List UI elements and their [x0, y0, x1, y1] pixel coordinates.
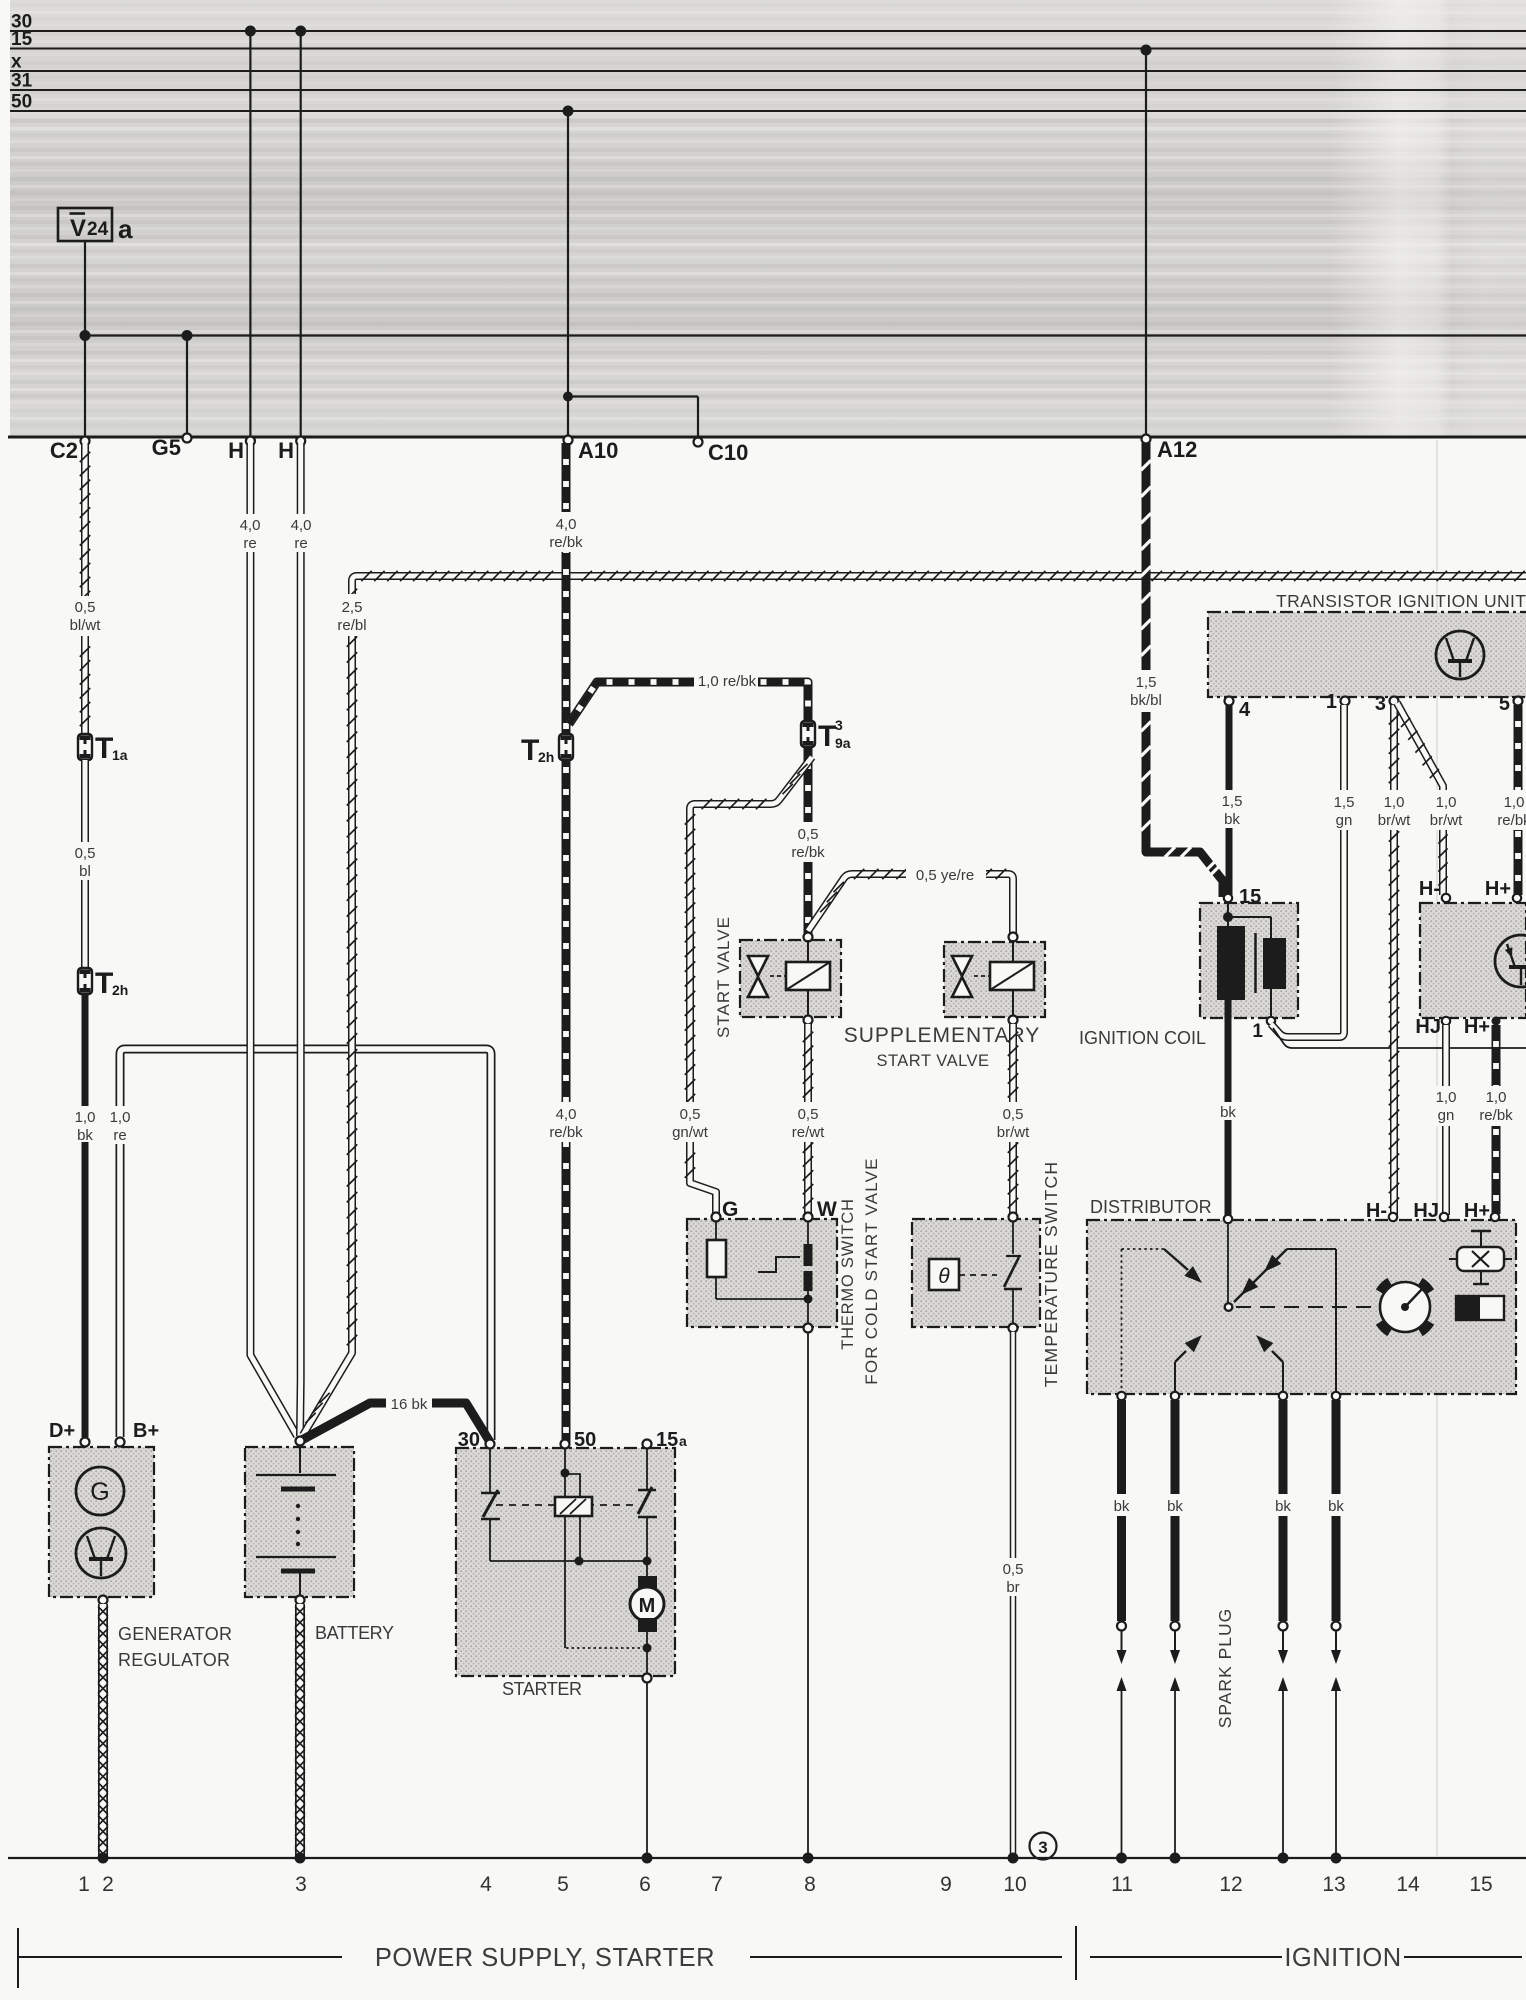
- starter solenoid actuation dashed line: [496, 1504, 638, 1506]
- thermo switch bottom terminal: [804, 1324, 813, 1333]
- svg-text:1,5: 1,5: [1222, 793, 1243, 810]
- spark plug lead 4 (bk): [1328, 1392, 1344, 1621]
- svg-text:gn: gn: [1336, 812, 1353, 829]
- wire 0.5 re/bk (T9a to start valve): [791, 747, 825, 937]
- svg-text:13: 13: [1322, 1873, 1345, 1896]
- generator symbol G: [76, 1467, 124, 1515]
- terminal A12: [1142, 435, 1198, 463]
- wire H (right) from bus 30: [295, 26, 306, 440]
- svg-text:3: 3: [1375, 693, 1386, 715]
- svg-text:gn: gn: [1438, 1107, 1455, 1124]
- interference suppressor: [1449, 1231, 1512, 1284]
- label TEMPERATURE SWITCH: [1041, 1161, 1061, 1387]
- svg-text:re/bk: re/bk: [549, 1124, 583, 1141]
- transistor ignition unit box: [1208, 612, 1526, 697]
- label DISTRIBUTOR: [1090, 1197, 1212, 1217]
- svg-text:re/bk: re/bk: [791, 844, 825, 861]
- wire 2.5 re/bl (bus to battery +) hatched: [303, 571, 1526, 1435]
- svg-text:bl: bl: [79, 863, 91, 880]
- svg-text:TEMPERATURE SWITCH: TEMPERATURE SWITCH: [1041, 1161, 1061, 1387]
- label SUPPLEMENTARY START VALVE: [844, 1024, 1041, 1070]
- wire bk (coil to distributor): [1220, 1000, 1236, 1218]
- terminal A10: [564, 436, 619, 464]
- svg-text:4,0: 4,0: [556, 1106, 577, 1123]
- wire 0.5 bl (T1a to T2h): [72, 760, 98, 968]
- battery plates symbol: [256, 1447, 336, 1597]
- svg-text:bk: bk: [1328, 1498, 1344, 1515]
- wire starter to ground line: [646, 1682, 648, 1858]
- svg-text:0,5: 0,5: [798, 1106, 819, 1123]
- start valve box: [740, 940, 841, 1017]
- temperature switch box: [912, 1219, 1040, 1327]
- ground rail junction at x=647: [642, 1853, 653, 1864]
- battery + terminal: [296, 1437, 305, 1446]
- wire 16 bk (battery + to starter 30): [300, 1394, 490, 1442]
- svg-text:x: x: [11, 52, 22, 73]
- starter contact 15a: [638, 1448, 657, 1561]
- terminal C2: [50, 437, 90, 464]
- svg-text:SPARK PLUG: SPARK PLUG: [1215, 1608, 1235, 1729]
- bus line 15: [10, 29, 1526, 50]
- ground rail junction at x=300: [295, 1853, 306, 1864]
- svg-text:C10: C10: [708, 440, 748, 465]
- start valve injector symbol: [748, 956, 786, 997]
- svg-text:14: 14: [1396, 1873, 1420, 1896]
- starter box: [456, 1448, 675, 1676]
- ground rail junction at x=1013: [1008, 1853, 1019, 1864]
- svg-text:1,0: 1,0: [1436, 1089, 1457, 1106]
- spark plug gap 3: [1278, 1622, 1288, 1859]
- svg-text:br/wt: br/wt: [997, 1124, 1030, 1141]
- svg-text:re: re: [294, 535, 307, 552]
- page fold line (faint): [1436, 440, 1438, 1856]
- wire H (left) from bus 30: [245, 26, 256, 440]
- distributor rotor: [1379, 1281, 1430, 1332]
- bus line x: [10, 52, 1526, 73]
- spark plug gap 2: [1170, 1622, 1180, 1859]
- wire 1.5 bk/bl (A12 to ignition coil 15): [1128, 443, 1223, 897]
- start valve bottom terminal: [804, 1016, 813, 1025]
- relay V24 box: [58, 208, 133, 244]
- wire 1.0 bk (T2h to D+): [75, 994, 96, 1437]
- svg-text:1: 1: [1326, 691, 1337, 713]
- svg-text:30: 30: [458, 1429, 480, 1451]
- svg-text:3: 3: [295, 1873, 307, 1896]
- wire thin (coil 1 to right edge): [1273, 1028, 1526, 1048]
- svg-text:8: 8: [804, 1873, 816, 1896]
- wire G5 drop: [186, 336, 188, 438]
- wire thermo switch to ground line: [807, 1332, 809, 1858]
- ignition unit terminal 5: [1499, 693, 1523, 715]
- wire 1.0 br/wt (terminal 3 branch to control unit H-) hatched: [1397, 703, 1463, 895]
- wire 1.0 re/bk branch (to T9a): [569, 670, 808, 724]
- svg-text:W: W: [817, 1198, 837, 1221]
- ignition unit terminal 1: [1326, 691, 1350, 713]
- distributor cap path 3: [1175, 1335, 1202, 1394]
- svg-text:STARTER: STARTER: [502, 1679, 582, 1699]
- transistor ignition unit transistor symbol: [1436, 631, 1484, 679]
- distributor terminal H-: [1366, 1200, 1397, 1222]
- terminal B+: [116, 1420, 160, 1447]
- svg-text:5: 5: [557, 1873, 569, 1896]
- svg-text:15: 15: [656, 1429, 678, 1451]
- svg-text:re: re: [113, 1127, 126, 1144]
- starter bottom terminal: [643, 1674, 652, 1683]
- svg-text:1,0: 1,0: [1504, 794, 1525, 811]
- svg-text:C2: C2: [50, 438, 78, 463]
- control unit terminal H-: [1419, 878, 1450, 902]
- svg-text:REGULATOR: REGULATOR: [118, 1650, 230, 1670]
- svg-text:H+: H+: [1464, 1016, 1490, 1038]
- svg-text:50: 50: [574, 1429, 596, 1451]
- supplementary start valve bottom terminal: [1009, 1016, 1018, 1025]
- distributor box: [1087, 1220, 1516, 1394]
- bus line 50: [10, 92, 1526, 113]
- ignition coil box: [1200, 903, 1298, 1018]
- svg-text:1a: 1a: [112, 747, 128, 763]
- wire 1.5 bk (terminal 4 to coil 15): [1222, 705, 1243, 895]
- svg-text:G: G: [90, 1478, 109, 1506]
- svg-text:re/bk: re/bk: [549, 534, 583, 551]
- label 4.0 re (right): [288, 514, 313, 552]
- band/diagram boundary line: [8, 436, 1526, 439]
- ground rail junction at x=103: [98, 1853, 109, 1864]
- ground rail junction at x=1121.5: [1116, 1853, 1127, 1864]
- svg-text:a: a: [679, 1433, 687, 1449]
- svg-text:T: T: [818, 720, 836, 753]
- starter terminal 50: [561, 1429, 597, 1451]
- svg-text:1: 1: [1252, 1021, 1263, 1042]
- svg-text:G5: G5: [152, 435, 181, 460]
- svg-text:gn/wt: gn/wt: [672, 1124, 709, 1141]
- thermo switch terminal G: [712, 1198, 739, 1222]
- svg-text:0,5: 0,5: [798, 826, 819, 843]
- svg-text:br/wt: br/wt: [1430, 812, 1463, 829]
- terminal G5: [152, 434, 192, 461]
- bus line 31: [10, 71, 1526, 92]
- svg-text:THERMO SWITCH: THERMO SWITCH: [839, 1198, 857, 1350]
- terminal D+: [49, 1420, 90, 1447]
- svg-text:bk/bl: bk/bl: [1130, 692, 1162, 709]
- svg-text:HJ: HJ: [1415, 1016, 1441, 1038]
- svg-text:10: 10: [1003, 1873, 1026, 1896]
- temperature switch bottom terminal: [1009, 1324, 1018, 1333]
- svg-text:5: 5: [1499, 693, 1510, 715]
- ignition control unit box: [1420, 903, 1526, 1018]
- svg-text:24: 24: [87, 219, 109, 240]
- supplementary start valve box: [944, 942, 1045, 1017]
- connector T1a: [78, 732, 128, 765]
- svg-text:bk: bk: [1275, 1498, 1291, 1515]
- svg-text:1,0: 1,0: [110, 1109, 131, 1126]
- svg-text:bk: bk: [1114, 1498, 1130, 1515]
- temperature sensor symbol: [929, 1259, 997, 1290]
- control unit terminal H+ (top): [1485, 878, 1521, 902]
- distributor rotor centre contact: [1225, 1303, 1233, 1311]
- label BATTERY: [315, 1623, 394, 1643]
- svg-text:START VALVE: START VALVE: [876, 1052, 989, 1070]
- svg-text:BATTERY: BATTERY: [315, 1623, 394, 1643]
- svg-text:re/bl: re/bl: [337, 617, 366, 634]
- svg-text:H: H: [278, 438, 294, 463]
- battery bottom terminal: [296, 1596, 305, 1605]
- start valve coil: [786, 940, 830, 1018]
- thermo switch bimetal contact: [758, 1221, 813, 1325]
- terminal H: [228, 437, 255, 464]
- label THERMO SWITCH FOR COLD START VALVE: [839, 1157, 881, 1384]
- supplementary start valve top terminal: [1009, 933, 1018, 942]
- svg-text:D+: D+: [49, 1420, 75, 1442]
- ground strap generator regulator: [98, 1604, 108, 1859]
- svg-text:POWER SUPPLY, STARTER: POWER SUPPLY, STARTER: [375, 1944, 715, 1972]
- svg-text:4,0: 4,0: [291, 517, 312, 534]
- current track numbers: [78, 1873, 1493, 1896]
- thermo switch heater resistor: [707, 1221, 808, 1299]
- svg-text:4: 4: [480, 1873, 492, 1896]
- ground rail junction at x=1175: [1170, 1853, 1181, 1864]
- svg-text:1,0: 1,0: [1486, 1089, 1507, 1106]
- svg-text:H-: H-: [1419, 878, 1440, 900]
- svg-text:1,0 re/bk: 1,0 re/bk: [698, 673, 757, 690]
- svg-text:12: 12: [1219, 1873, 1242, 1896]
- distributor cap path 1 (dotted): [1122, 1249, 1203, 1394]
- svg-text:IGNITION: IGNITION: [1284, 1944, 1401, 1972]
- label SPARK PLUG: [1215, 1608, 1235, 1729]
- label IGNITION COIL: [1079, 1028, 1206, 1048]
- section bracket IGNITION: [1076, 1926, 1522, 1980]
- svg-text:11: 11: [1111, 1873, 1133, 1896]
- distributor terminal H+: [1464, 1200, 1499, 1222]
- wire 0.5 br (temperature switch to ground line): [1001, 1332, 1026, 1858]
- label GENERATOR REGULATOR: [118, 1624, 232, 1670]
- wire 0.5 ye/re (branch to supplementary start valve) hatched: [808, 864, 1013, 934]
- ignition unit terminal 4: [1225, 697, 1252, 722]
- wire 1.0 re (B+ to starter 30): [107, 1049, 491, 1440]
- svg-text:50: 50: [11, 92, 32, 113]
- ground rail line: [8, 1857, 1526, 1859]
- svg-text:bk: bk: [1167, 1498, 1183, 1515]
- svg-text:0,5: 0,5: [680, 1106, 701, 1123]
- svg-text:2h: 2h: [112, 982, 128, 998]
- svg-text:4: 4: [1239, 699, 1251, 721]
- wire 0.5 bl/wt (C2 to T1a) hatched: [70, 443, 102, 733]
- svg-text:H+: H+: [1464, 1200, 1490, 1222]
- svg-text:9: 9: [940, 1873, 952, 1896]
- distributor terminal HJ: [1413, 1200, 1448, 1222]
- svg-text:T: T: [521, 734, 539, 767]
- thermo switch terminal W: [804, 1198, 838, 1222]
- distributor cap path 4: [1256, 1335, 1283, 1394]
- ground strap battery: [295, 1604, 305, 1859]
- distributor centre electrode wire: [1227, 1222, 1229, 1303]
- svg-text:2,5: 2,5: [342, 599, 363, 616]
- svg-text:4,0: 4,0: [240, 517, 261, 534]
- svg-text:1,0: 1,0: [1436, 794, 1457, 811]
- distributor cap path 2: [1234, 1249, 1336, 1394]
- label START VALVE: [714, 916, 733, 1038]
- svg-text:1: 1: [78, 1873, 90, 1896]
- svg-text:re/wt: re/wt: [792, 1124, 825, 1141]
- temperature switch contact: [1004, 1221, 1022, 1325]
- svg-text:1,0: 1,0: [1384, 794, 1405, 811]
- connector T9a: [801, 717, 851, 753]
- svg-text:16 bk: 16 bk: [391, 1396, 428, 1413]
- rotor resistor symbol: [1456, 1296, 1504, 1320]
- svg-text:2: 2: [102, 1873, 114, 1896]
- svg-text:H-: H-: [1366, 1200, 1387, 1222]
- svg-text:A10: A10: [578, 438, 618, 463]
- svg-text:re/bk: re/bk: [1497, 812, 1526, 829]
- svg-text:FOR COLD START VALVE: FOR COLD START VALVE: [862, 1157, 881, 1384]
- svg-text:START VALVE: START VALVE: [714, 916, 733, 1038]
- wire V24 to C2 terminal: [84, 241, 86, 439]
- label 4.0 re (left): [238, 514, 263, 552]
- svg-text:IGNITION COIL: IGNITION COIL: [1079, 1028, 1206, 1048]
- wire 1.0 gn (control unit HJ to distributor HJ): [1435, 1025, 1458, 1215]
- wire 1.5 gn (ignition unit 1 to coil 1): [1271, 705, 1357, 1037]
- wire 4.0 re (left H to battery +): [250, 443, 297, 1436]
- svg-text:31: 31: [11, 71, 33, 92]
- svg-text:re/bk: re/bk: [1479, 1107, 1513, 1124]
- spark plug lead 3 (bk): [1275, 1392, 1291, 1621]
- connector T2h (generator branch): [78, 967, 128, 1000]
- wire 1.0 re/bk (control unit H+ to distributor H+): [1479, 1025, 1513, 1214]
- svg-text:0,5: 0,5: [1003, 1561, 1024, 1578]
- terminal C10: [694, 438, 749, 466]
- generator regulator box: [49, 1447, 154, 1597]
- svg-text:0,5: 0,5: [1003, 1106, 1024, 1123]
- starter terminal 30: [458, 1429, 495, 1451]
- generator regulator bottom terminal: [99, 1596, 108, 1605]
- spark plug lead 1 (bk): [1114, 1392, 1130, 1621]
- ground rail junction at x=1336: [1331, 1853, 1342, 1864]
- temperature switch top terminal: [1009, 1213, 1018, 1222]
- svg-text:15: 15: [11, 29, 33, 50]
- junction dot C2/distribution line: [80, 330, 91, 341]
- svg-text:θ: θ: [938, 1265, 950, 1288]
- label STARTER: [502, 1679, 582, 1699]
- svg-text:3: 3: [1038, 1838, 1047, 1857]
- svg-text:B+: B+: [133, 1420, 159, 1442]
- svg-text:bk: bk: [1224, 811, 1240, 828]
- svg-text:7: 7: [711, 1873, 723, 1896]
- svg-text:15: 15: [1469, 1873, 1492, 1896]
- ground rail junction at x=1283: [1278, 1853, 1289, 1864]
- ground rail junction at x=808: [803, 1853, 814, 1864]
- starter internal bus wire: [490, 1557, 652, 1566]
- svg-text:3: 3: [835, 717, 843, 733]
- wire 1.0 br/wt (terminal 3 to distributor H-) hatched: [1378, 705, 1411, 1215]
- label 2.5 re/bl: [336, 594, 368, 636]
- regulator transistor symbol: [76, 1528, 126, 1578]
- supplementary start valve injector symbol: [952, 956, 990, 997]
- wire C10 branch: [563, 392, 698, 442]
- starter solenoid coil: [555, 1448, 592, 1648]
- svg-text:br: br: [1006, 1579, 1019, 1596]
- distributor dashed drive line: [1236, 1306, 1379, 1308]
- svg-text:0,5: 0,5: [75, 599, 96, 616]
- svg-text:A12: A12: [1157, 437, 1197, 462]
- svg-text:H+: H+: [1485, 878, 1511, 900]
- svg-text:M: M: [639, 1595, 656, 1617]
- starter terminal 15a: [643, 1429, 688, 1451]
- svg-text:2h: 2h: [538, 749, 554, 765]
- ignition unit terminal 3: [1375, 693, 1399, 715]
- svg-text:G: G: [722, 1198, 738, 1221]
- spark plug gap 4: [1331, 1622, 1341, 1859]
- start valve top terminal: [804, 933, 813, 942]
- svg-text:a: a: [118, 214, 133, 244]
- wire 0.5 re/wt (start valve to thermo switch W) hatched: [792, 1024, 825, 1215]
- spark plug lead 2 (bk): [1167, 1392, 1183, 1621]
- control unit terminal HJ: [1415, 1016, 1450, 1038]
- svg-text:6: 6: [639, 1873, 651, 1896]
- terminal H: [278, 437, 305, 464]
- wire 4.0 re/bk (A10 to starter 50): [549, 443, 583, 1442]
- svg-text:T: T: [95, 732, 113, 765]
- svg-text:0,5 ye/re: 0,5 ye/re: [916, 867, 974, 884]
- svg-text:br/wt: br/wt: [1378, 812, 1411, 829]
- svg-text:1,5: 1,5: [1136, 674, 1157, 691]
- svg-text:1,5: 1,5: [1334, 794, 1355, 811]
- svg-text:V: V: [70, 215, 86, 242]
- svg-text:bk: bk: [77, 1127, 93, 1144]
- svg-text:re: re: [243, 535, 256, 552]
- wire 0.5 gn/wt (T9a branch to thermo switch G) hatched: [672, 757, 812, 1215]
- label TRANSISTOR IGNITION UNIT: [1276, 591, 1526, 611]
- svg-text:GENERATOR: GENERATOR: [118, 1624, 232, 1644]
- svg-text:HJ: HJ: [1413, 1200, 1439, 1222]
- scan band background: [0, 0, 1526, 437]
- junction dot G5/distribution line: [182, 330, 193, 341]
- ignition coil terminal 15: [1224, 886, 1261, 908]
- svg-text:9a: 9a: [835, 735, 851, 751]
- battery box: [245, 1447, 354, 1597]
- ignition coil terminal 1: [1252, 1017, 1275, 1042]
- svg-text:0,5: 0,5: [75, 845, 96, 862]
- control unit terminal H+ (bottom): [1464, 1016, 1501, 1038]
- wire A12 from bus 15: [1141, 45, 1152, 439]
- svg-text:TRANSISTOR IGNITION UNIT: TRANSISTOR IGNITION UNIT: [1276, 591, 1526, 611]
- wire 0.5 br/wt (supplementary valve to temperature switch) hatched: [997, 1024, 1030, 1215]
- distributor terminal (coil bk wire): [1224, 1215, 1232, 1223]
- svg-text:4,0: 4,0: [556, 516, 577, 533]
- thermo switch box: [687, 1219, 837, 1327]
- starter contact 30: [481, 1448, 500, 1561]
- control unit transistor symbol: [1495, 935, 1526, 987]
- svg-text:DISTRIBUTOR: DISTRIBUTOR: [1090, 1197, 1212, 1217]
- supplementary start valve coil: [990, 940, 1034, 1018]
- band distribution line: [85, 334, 1526, 336]
- wire 4.0 re (right H to battery +): [296, 443, 305, 1436]
- starter motor M: [566, 1561, 664, 1676]
- ignition coil windings: [1217, 902, 1286, 1018]
- svg-text:H: H: [228, 438, 244, 463]
- ground point 3 marker: [1030, 1833, 1057, 1860]
- connector T2h (starter feed): [521, 734, 573, 767]
- svg-text:T: T: [95, 967, 113, 1000]
- spark plug gap 1: [1117, 1622, 1127, 1859]
- svg-text:bk: bk: [1220, 1104, 1236, 1121]
- wire 1.0 re/bk (terminal 5 to control unit H+): [1497, 705, 1526, 895]
- section bracket POWER SUPPLY, STARTER: [18, 1928, 1062, 1988]
- svg-text:1,0: 1,0: [75, 1109, 96, 1126]
- svg-text:bl/wt: bl/wt: [70, 617, 102, 634]
- bus line 30: [10, 12, 1526, 33]
- wire A10 from bus 50: [563, 106, 574, 441]
